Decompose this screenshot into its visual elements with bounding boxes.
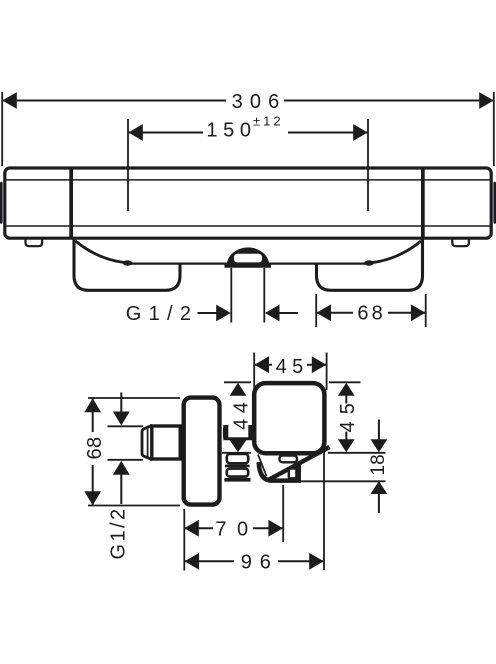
wall stub thread end cap bbox=[142, 425, 153, 460]
divider left bbox=[69, 167, 73, 239]
G1/2 callout upper bbox=[126, 303, 298, 325]
mixer bar body bbox=[4, 167, 492, 239]
svg-text:68: 68 bbox=[357, 303, 385, 325]
wall tab left bbox=[26, 239, 43, 246]
ledge line left bbox=[131, 263, 229, 265]
ledge line right bbox=[267, 263, 366, 265]
lever corner and bottom edge bbox=[259, 462, 299, 481]
svg-text:G1/2: G1/2 bbox=[126, 303, 199, 325]
lever below handle bbox=[258, 450, 317, 481]
dimension 306 top bbox=[2, 91, 494, 166]
lever front notch bbox=[289, 469, 297, 479]
dimension 18 right bbox=[301, 420, 389, 514]
divider right bbox=[421, 167, 425, 239]
wall stub body bbox=[152, 426, 180, 459]
neck slot A bbox=[227, 454, 248, 463]
dimension 68 left vertical bbox=[84, 398, 180, 506]
neck slot B bbox=[227, 469, 248, 477]
svg-text:G1/2: G1/2 bbox=[108, 507, 130, 560]
lever top notch bbox=[280, 456, 298, 463]
wall tab right bbox=[452, 239, 469, 246]
escutcheon bbox=[184, 398, 220, 505]
lever inner line bbox=[258, 455, 267, 477]
svg-text:18: 18 bbox=[368, 454, 389, 475]
svg-text:306: 306 bbox=[232, 91, 287, 113]
right handle outline bbox=[317, 240, 423, 291]
end cap right bbox=[493, 182, 496, 224]
outlet dome bbox=[227, 247, 270, 266]
svg-text:±12: ±12 bbox=[253, 114, 284, 129]
svg-text:96: 96 bbox=[241, 552, 279, 574]
svg-text:70: 70 bbox=[215, 519, 258, 541]
svg-text:44: 44 bbox=[231, 397, 253, 430]
outlet bottom band bbox=[225, 263, 272, 267]
dimension 45 right vertical bbox=[328, 382, 386, 453]
lever diagonal edge bbox=[269, 447, 330, 480]
outlet window bbox=[234, 254, 262, 263]
inner panel line top bbox=[4, 179, 492, 181]
dimension 150 +/-12 bbox=[128, 114, 368, 212]
right handle dot bbox=[364, 260, 374, 265]
neck band bbox=[225, 465, 250, 468]
dimension 68 upper bbox=[316, 294, 426, 327]
valve neck top block bbox=[223, 425, 253, 440]
right handle profile curve bbox=[372, 241, 422, 263]
dimension 70 bbox=[184, 485, 283, 571]
handle square bbox=[254, 383, 324, 453]
left handle outline bbox=[74, 240, 180, 291]
G1/2 callout lower bbox=[108, 393, 144, 560]
left handle profile curve bbox=[76, 241, 126, 263]
neck bottom edge bbox=[224, 478, 250, 482]
dimension 44 bbox=[222, 382, 253, 453]
left handle dot bbox=[123, 260, 133, 265]
inner panel line bottom bbox=[4, 225, 492, 227]
end cap left bbox=[0, 182, 3, 224]
dimension 45 top bbox=[254, 353, 326, 391]
outlet extension lines bbox=[230, 268, 232, 323]
svg-text:45: 45 bbox=[276, 356, 309, 378]
dimension 96 bbox=[184, 450, 324, 574]
svg-text:150: 150 bbox=[206, 119, 256, 141]
svg-text:45: 45 bbox=[337, 396, 359, 432]
svg-text:68: 68 bbox=[84, 437, 106, 460]
